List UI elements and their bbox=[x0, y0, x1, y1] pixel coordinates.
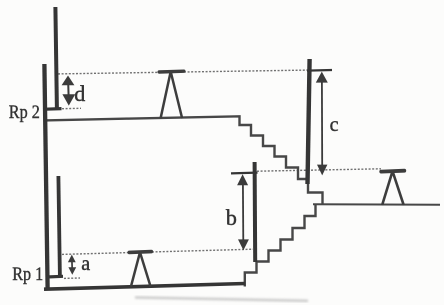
svg-text:b: b bbox=[226, 205, 237, 230]
svg-text:d: d bbox=[74, 81, 85, 106]
svg-text:c: c bbox=[330, 114, 339, 136]
svg-text:Rp 2: Rp 2 bbox=[9, 103, 40, 123]
svg-text:a: a bbox=[81, 253, 90, 275]
svg-text:Rp 1: Rp 1 bbox=[12, 265, 43, 285]
